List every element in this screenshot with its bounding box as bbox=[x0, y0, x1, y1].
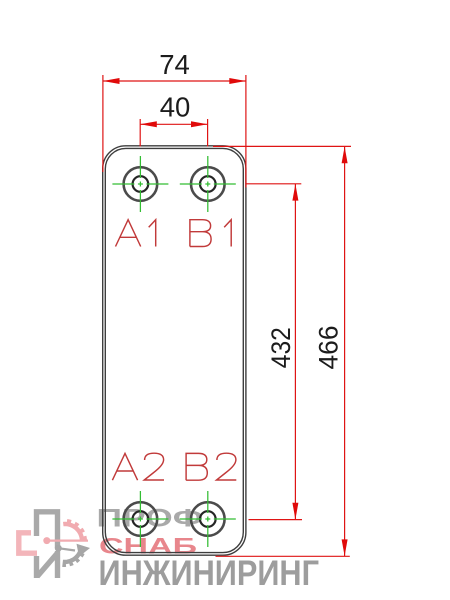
port B1 circles bbox=[191, 167, 225, 201]
svg-text:74: 74 bbox=[159, 49, 190, 80]
svg-text:ИНЖИНИРИНГ: ИНЖИНИРИНГ bbox=[99, 554, 320, 593]
dimension 40 line bbox=[140, 123, 207, 125]
port B2 circles bbox=[191, 502, 225, 536]
dimension 466 line bbox=[344, 147, 346, 556]
centerline port A2 bbox=[112, 491, 168, 547]
dimension 74 extension lines bbox=[103, 75, 246, 188]
dimension 466 arrows bbox=[342, 147, 348, 164]
centerline port B1 bbox=[180, 156, 236, 212]
svg-text:432: 432 bbox=[266, 327, 296, 368]
watermark red trace with node dot bbox=[47, 539, 88, 541]
watermark logo letter I (И) bbox=[37, 551, 58, 578]
watermark red gear bbox=[63, 519, 87, 540]
plate outline outer bbox=[103, 146, 246, 555]
svg-text:40: 40 bbox=[160, 91, 191, 122]
centerline port A1 bbox=[112, 156, 168, 212]
label port A2 bbox=[112, 453, 137, 480]
dimension 466 extension lines bbox=[213, 146, 351, 556]
watermark gray gear bbox=[62, 549, 84, 567]
dimension 432 line bbox=[294, 184, 296, 519]
label port A1 bbox=[116, 220, 141, 247]
centerline port B2 bbox=[180, 491, 236, 547]
dimension 432 arrows bbox=[292, 184, 298, 201]
watermark gray trace with node dot bbox=[58, 548, 75, 550]
label port B1 bbox=[190, 220, 211, 247]
dimension 40 extension lines bbox=[140, 119, 207, 147]
port A2 circles bbox=[124, 502, 158, 536]
dimension 432 extension lines bbox=[246, 184, 302, 520]
label port B2 bbox=[186, 453, 207, 480]
plate outline inner bbox=[105, 148, 243, 552]
watermark logo letter C (С) bbox=[19, 533, 37, 553]
watermark logo letter P (П) bbox=[37, 512, 58, 548]
port A1 circles bbox=[124, 167, 158, 201]
watermark gray pointer triangle bbox=[77, 544, 91, 557]
dimension 74 arrows bbox=[103, 78, 120, 84]
dimension 40 arrows bbox=[140, 121, 157, 127]
svg-text:466: 466 bbox=[313, 326, 343, 370]
dimension 74 line bbox=[103, 80, 246, 82]
